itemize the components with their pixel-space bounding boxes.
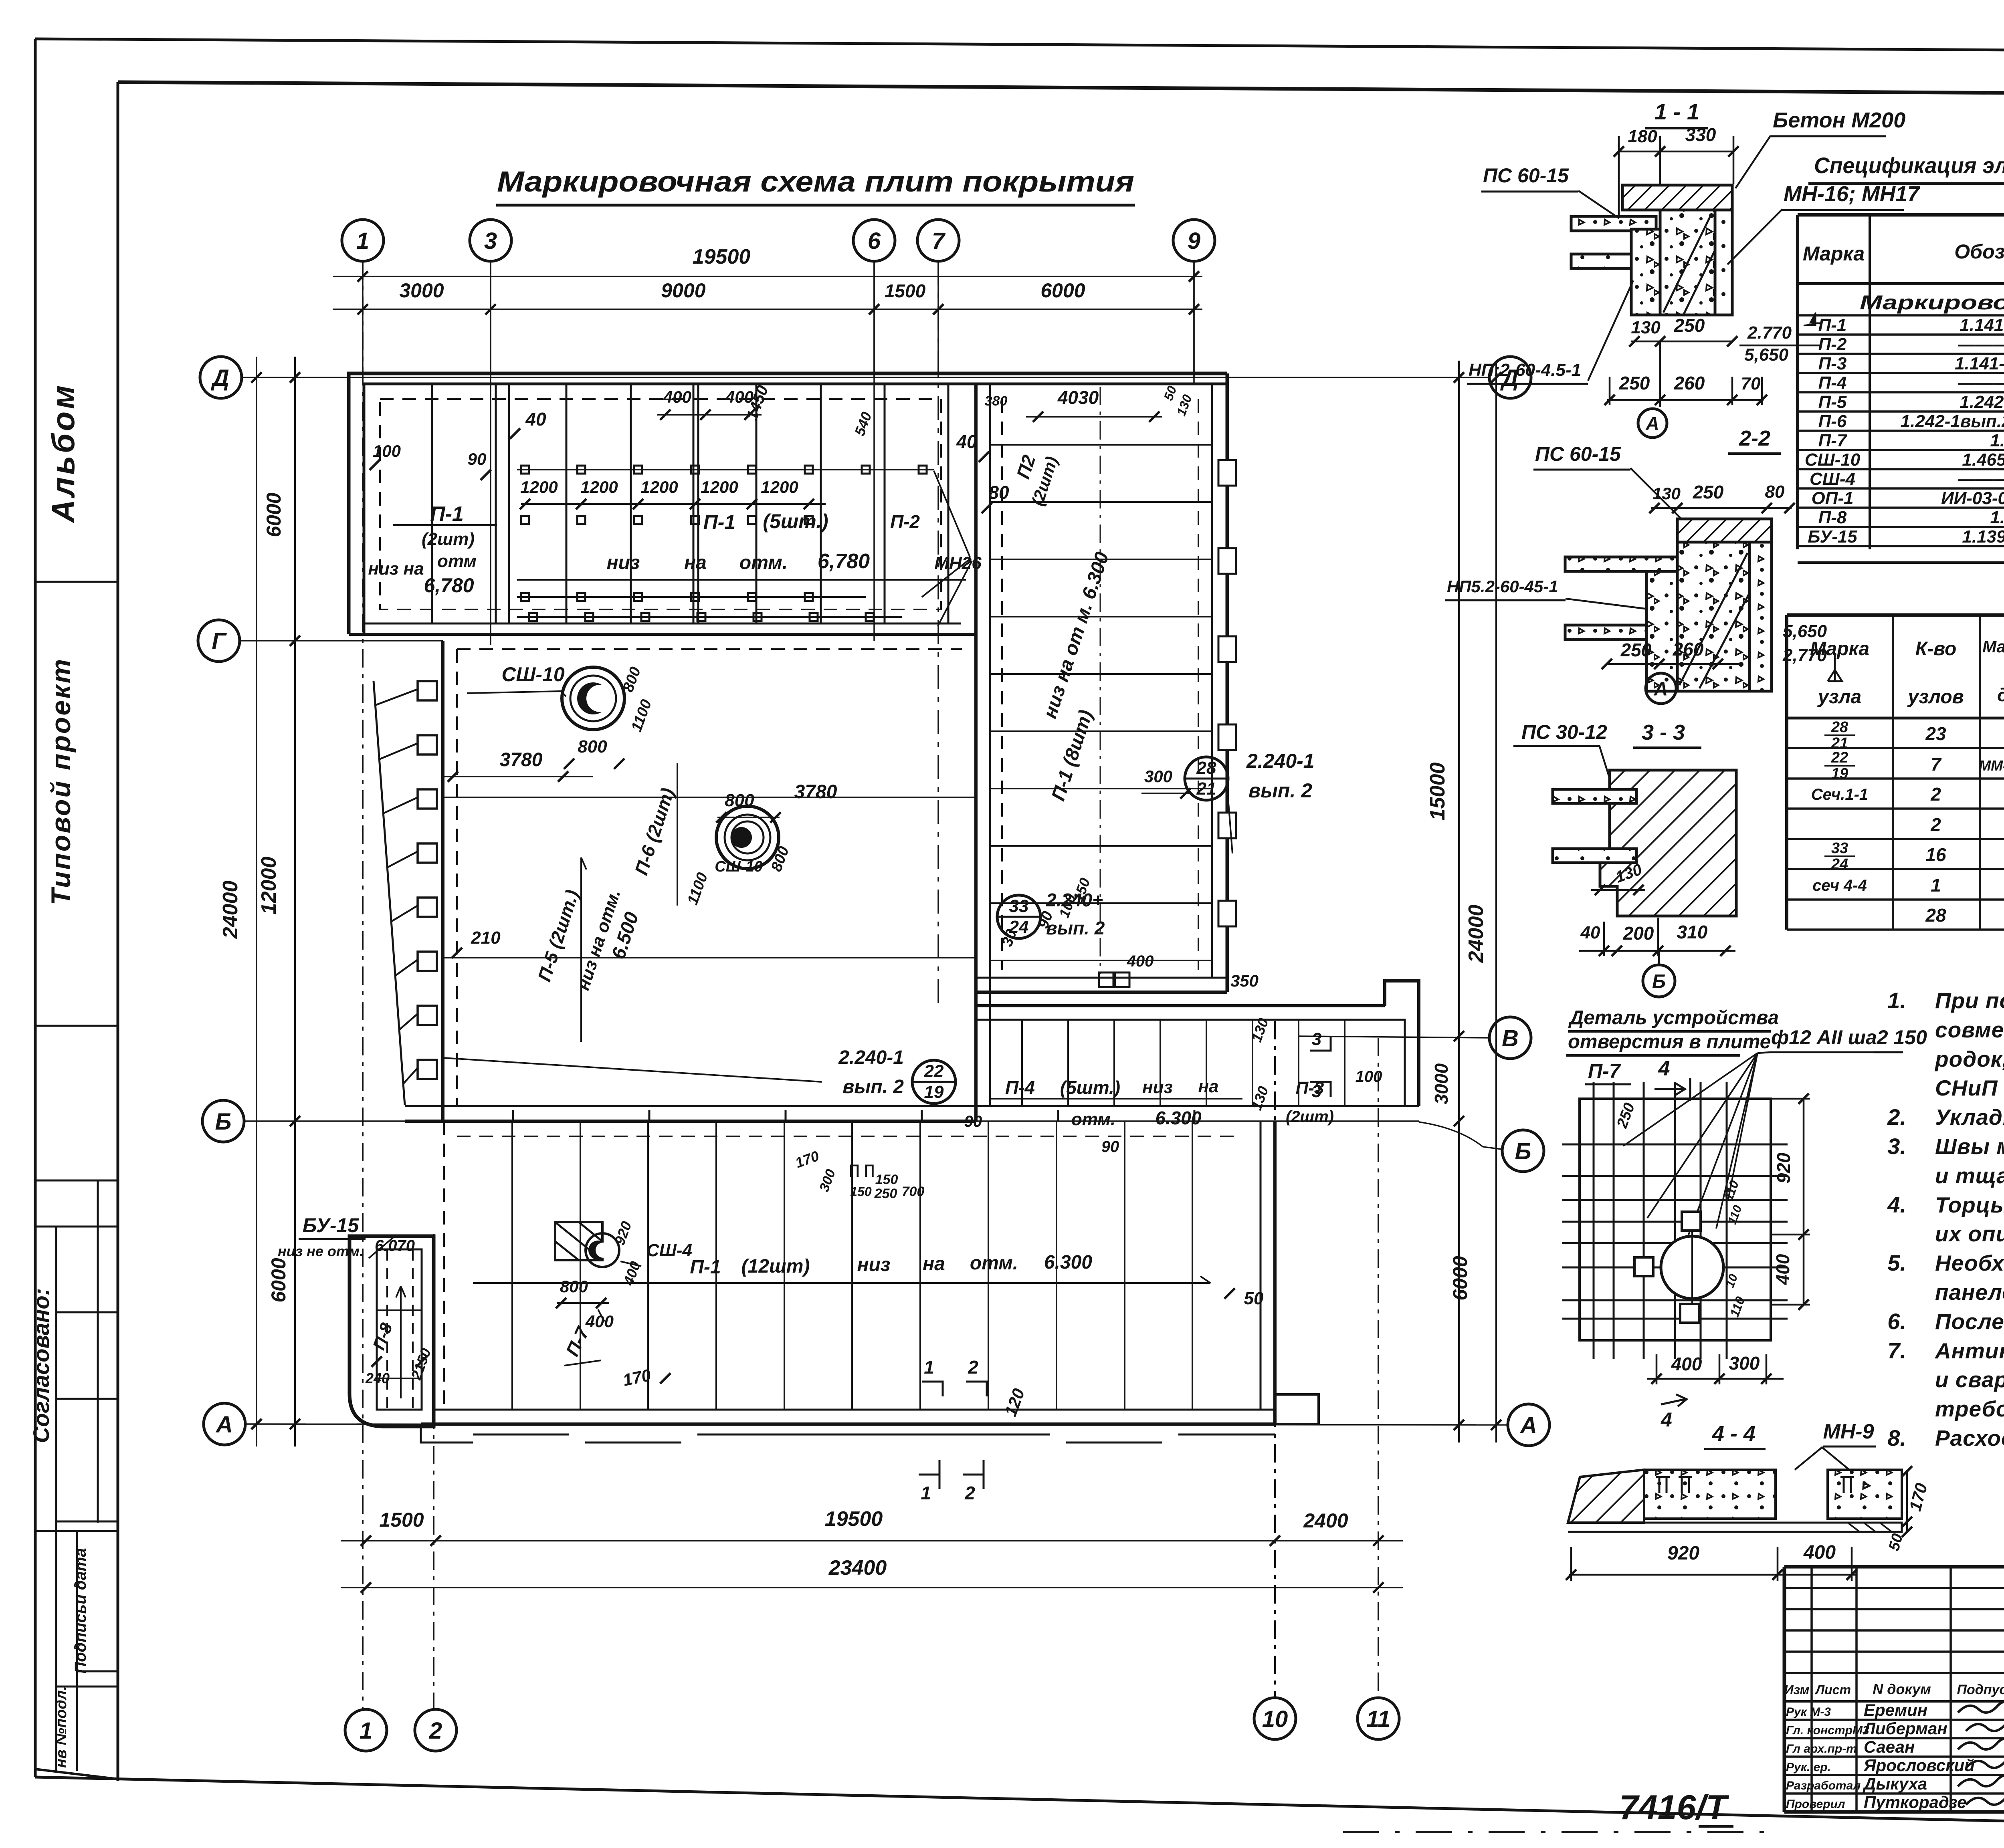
detail bottom dim 400/300 — [1647, 1378, 1784, 1380]
axis circle Д right — [1489, 357, 1531, 398]
table1 grid — [1798, 213, 2004, 217]
svg-text:Типовой проект: Типовой проект — [46, 658, 76, 905]
svg-text:1200: 1200 — [520, 478, 558, 496]
svg-text:ф12 АII ша2 150: ф12 АII ша2 150 — [1771, 1026, 1927, 1049]
section 2-2 right strip — [1749, 542, 1772, 691]
zone4 bottom wall — [434, 1409, 1275, 1411]
svg-text:700: 700 — [902, 1184, 925, 1199]
svg-text:Маркировочная схема плит: Маркировочная схема плит покрытия — [497, 166, 1134, 198]
svg-text:их опирания.: их опирания. — [1935, 1221, 2004, 1246]
svg-text:на: на — [1198, 1077, 1218, 1096]
strip inner dashed — [1001, 399, 1003, 970]
svg-text:/Т: /Т — [1695, 1788, 1729, 1827]
plan zone1 slab joints — [431, 384, 433, 623]
svg-text:МН-16; МН17: МН-16; МН17 — [1784, 182, 1921, 206]
svg-text:22: 22 — [1831, 749, 1848, 766]
svg-text:33: 33 — [1009, 896, 1029, 916]
svg-text:ММ-11(ℓ=0,45м): ММ-11(ℓ=0,45м) — [1979, 757, 2004, 774]
svg-text:6000: 6000 — [1040, 279, 1085, 302]
svg-text:Путкорадзе: Путкорадзе — [1864, 1793, 1967, 1812]
detail grid outline — [1580, 1099, 1771, 1340]
svg-text:2: 2 — [964, 1483, 975, 1503]
svg-text:Разработал: Разработал — [1786, 1779, 1861, 1792]
svg-text:Спецификация элементов к марки: Спецификация элементов к маркировочным с… — [1814, 153, 2004, 178]
axis circle 3 top — [470, 220, 511, 261]
svg-text:БУ-15: БУ-15 — [303, 1214, 359, 1237]
svg-text:24000: 24000 — [219, 881, 242, 939]
svg-text:низ: низ — [607, 552, 640, 573]
СШ-10 hole 1 — [562, 667, 624, 730]
СШ-10 hole 2 — [716, 806, 779, 869]
axis circle Д left — [200, 357, 242, 398]
svg-text:400: 400 — [663, 387, 691, 406]
svg-text:В: В — [1502, 1025, 1519, 1051]
svg-text:920: 920 — [1773, 1152, 1794, 1183]
svg-text:250: 250 — [1620, 640, 1652, 660]
axis circle А left — [204, 1403, 245, 1445]
svg-text:2.240-1: 2.240-1 — [1246, 750, 1315, 772]
top dim line 19500 — [333, 276, 1202, 277]
БУ-15 block joints — [377, 1309, 422, 1311]
sheet left border — [34, 39, 37, 1777]
svg-text:отм.: отм. — [970, 1253, 1018, 1274]
section 1-1 left slab lower — [1571, 254, 1656, 268]
svg-text:(5шт.): (5шт.) — [763, 510, 828, 533]
zoneV labels — [990, 1098, 1242, 1100]
svg-text:Д: Д — [210, 365, 229, 391]
П-6 label — [677, 763, 678, 906]
svg-text:1.243-2: 1.243-2 — [1990, 508, 2004, 527]
svg-text:260: 260 — [1674, 373, 1705, 393]
svg-text:(2шт): (2шт) — [1286, 1108, 1334, 1126]
axis stubs top — [362, 261, 364, 377]
sheet bottom border — [35, 1777, 2004, 1834]
svg-text:920: 920 — [1667, 1543, 1699, 1564]
svg-text:4 - 4: 4 - 4 — [1712, 1422, 1756, 1446]
svg-text:Б: Б — [215, 1109, 231, 1135]
svg-text:3000: 3000 — [399, 279, 444, 302]
axis circle Г left — [198, 620, 240, 662]
svg-text:МН-9: МН-9 — [1823, 1420, 1874, 1443]
svg-text:Деталь устройства: Деталь устройства — [1568, 1007, 1779, 1029]
svg-text:вып. 2: вып. 2 — [1046, 918, 1105, 938]
zone3 left pilasters — [418, 681, 437, 700]
svg-text:4030: 4030 — [1057, 387, 1099, 408]
svg-text:Гл. констрМ3: Гл. констрМ3 — [1786, 1724, 1869, 1737]
svg-text:310: 310 — [1677, 922, 1708, 942]
svg-text:250: 250 — [1619, 373, 1650, 393]
section 2-2 left slab lower — [1565, 625, 1677, 640]
svg-text:П-1: П-1 — [1818, 315, 1847, 335]
svg-text:2: 2 — [1930, 784, 1941, 805]
section 1-1 right strip — [1715, 210, 1732, 315]
callout 28/21 — [1185, 757, 1228, 800]
axis line 3 — [490, 261, 491, 645]
section 2-2 lower-left block — [1646, 571, 1677, 691]
svg-text:Согласовано:: Согласовано: — [28, 1288, 54, 1443]
axis circle А right — [1508, 1404, 1549, 1446]
detail small squares — [1682, 1212, 1701, 1231]
left strip divider — [117, 82, 119, 1781]
zone3 top dashed — [457, 648, 962, 650]
svg-text:19: 19 — [1831, 765, 1848, 782]
svg-text:отм.: отм. — [1071, 1110, 1115, 1129]
axis line Д — [242, 377, 1489, 378]
svg-text:7.: 7. — [1887, 1338, 1906, 1363]
svg-text:ПС 60-15: ПС 60-15 — [1535, 443, 1621, 465]
svg-text:100: 100 — [1356, 1068, 1382, 1085]
svg-text:После монтажа панелей монтажны: После монтажа панелей монтажные петли от… — [1935, 1309, 2004, 1334]
svg-text:130: 130 — [1652, 484, 1681, 503]
П-5 label — [580, 857, 582, 1042]
left strip bottom table — [35, 1180, 118, 1182]
svg-text:1: 1 — [924, 1357, 934, 1378]
svg-text:3: 3 — [1312, 1081, 1321, 1101]
svg-text:22: 22 — [924, 1061, 944, 1081]
svg-text:3: 3 — [484, 228, 497, 254]
detail grid rebars horizontal — [1562, 1144, 1788, 1146]
plan zone1 inner dashed rect — [380, 399, 941, 609]
svg-text:——— " ———: ——— " ——— — [1958, 335, 2004, 354]
svg-text:1: 1 — [360, 1718, 372, 1744]
svg-text:10: 10 — [1262, 1706, 1288, 1732]
axis circle 2 bottom — [415, 1709, 457, 1751]
svg-text:80: 80 — [988, 482, 1009, 503]
svg-text:7416: 7416 — [1619, 1788, 1696, 1827]
strip right wall notches — [1218, 460, 1236, 486]
svg-text:2: 2 — [1930, 814, 1941, 835]
svg-text:Антикоррозийную зашиту металли: Антикоррозийную зашиту металличеоких эле… — [1934, 1338, 2004, 1363]
svg-text:П-6: П-6 — [1818, 412, 1847, 431]
svg-text:ОП-1: ОП-1 — [1812, 488, 1854, 508]
svg-text:сеч 4-4: сеч 4-4 — [1812, 877, 1867, 894]
svg-text:на: на — [923, 1253, 945, 1275]
svg-text:ПС 30-12: ПС 30-12 — [1521, 721, 1607, 743]
svg-text:1: 1 — [356, 228, 369, 254]
svg-text:1.465-7 вып.3: 1.465-7 вып.3 — [1962, 450, 2004, 470]
zone4 slab ticks top — [512, 1110, 514, 1121]
zone1 labels П-1 5шт row — [517, 579, 966, 581]
svg-text:9: 9 — [1188, 228, 1200, 254]
zoneV slab joints — [1021, 1020, 1023, 1106]
zone4 label row — [473, 1282, 1210, 1284]
svg-text:300: 300 — [1144, 767, 1172, 786]
svg-text:∏ ∏: ∏ ∏ — [848, 1162, 875, 1177]
svg-text:2.770: 2.770 — [1747, 323, 1792, 343]
svg-text:Изм: Изм — [1784, 1683, 1810, 1697]
plan zone1 anchor squares row1 — [517, 469, 934, 470]
zone4 bottom-right step — [1275, 1394, 1319, 1424]
svg-text:2-2: 2-2 — [1739, 426, 1770, 450]
svg-text:низ на: низ на — [368, 559, 424, 579]
svg-text:400: 400 — [1671, 1354, 1702, 1374]
bottom dim line 1500/19500/2400 — [341, 1540, 1403, 1541]
title block revision rows — [1784, 1587, 2004, 1589]
svg-text:Марка: Марка — [1810, 638, 1869, 660]
svg-text:низ не отм.: низ не отм. — [278, 1243, 364, 1259]
svg-text:——— " ———: ——— " ——— — [1958, 373, 2004, 393]
svg-text:(2шт): (2шт) — [422, 529, 475, 549]
svg-text:на: на — [684, 552, 707, 573]
svg-text:N докум: N докум — [1873, 1681, 1931, 1697]
svg-text:1500: 1500 — [885, 280, 926, 301]
strip bottom wall — [976, 977, 1227, 979]
svg-text:4: 4 — [1658, 1057, 1670, 1080]
БУ-15 block outline — [349, 1236, 434, 1426]
svg-text:Марка соед.: Марка соед. — [1982, 637, 2004, 656]
svg-text:Б: Б — [1515, 1138, 1531, 1164]
svg-text:3.: 3. — [1887, 1134, 1906, 1159]
svg-text:П-1: П-1 — [430, 502, 464, 526]
section 1-1 top slab hatched — [1622, 185, 1732, 210]
svg-text:300: 300 — [1729, 1353, 1760, 1374]
svg-text:Лист: Лист — [1815, 1683, 1851, 1697]
title block outer — [1784, 1565, 2004, 1569]
axis circle В right — [1489, 1017, 1531, 1059]
svg-text:400: 400 — [1772, 1254, 1793, 1285]
section 1-1 column — [1660, 210, 1715, 315]
svg-text:150: 150 — [850, 1184, 872, 1199]
axis line 2 bottom — [433, 1234, 434, 1709]
svg-text:П-1: П-1 — [690, 1257, 721, 1278]
4-4 bottom dims — [1569, 1574, 1856, 1576]
svg-text:СНиП II-21-75: СНиП II-21-75 — [1935, 1075, 2004, 1100]
СШ-4 detail — [555, 1222, 602, 1260]
rebar leader fan — [1623, 1053, 1758, 1269]
svg-text:6,780: 6,780 — [424, 574, 474, 597]
svg-text:низ: низ — [857, 1254, 891, 1275]
svg-text:детали: детали — [1997, 684, 2004, 705]
svg-text:24: 24 — [1831, 856, 1848, 873]
БУ-15 arrow — [396, 1286, 406, 1398]
svg-text:БУ-15: БУ-15 — [1808, 527, 1857, 547]
plan zone1 outer wall — [349, 373, 1227, 634]
axis line 10 bottom — [1274, 1021, 1276, 1697]
svg-text:6.: 6. — [1887, 1309, 1906, 1334]
svg-text:2: 2 — [968, 1357, 978, 1378]
section 3-3 circle Б — [1643, 965, 1675, 997]
svg-text:(12шт): (12шт) — [741, 1256, 810, 1277]
svg-text:1: 1 — [1931, 875, 1941, 896]
zone3 bottom wall — [405, 1105, 976, 1107]
svg-text:1: 1 — [921, 1483, 931, 1503]
detail grid rebars vertical — [1593, 1082, 1595, 1359]
svg-text:3780: 3780 — [794, 781, 837, 803]
svg-text:28: 28 — [1925, 905, 1946, 926]
section 2-2 top slab hatched — [1677, 519, 1772, 542]
svg-text:А: А — [1654, 678, 1668, 700]
section 2-2 left slab upper — [1565, 557, 1677, 571]
svg-text:и тщательно заделать цементным: и тщательно заделать цементным раствором… — [1935, 1163, 2004, 1188]
svg-text:50: 50 — [1244, 1289, 1264, 1308]
svg-text:200: 200 — [1623, 923, 1654, 944]
svg-text:А: А — [1645, 413, 1659, 434]
callout 22/19 — [912, 1060, 956, 1104]
axis line Б — [244, 1120, 1419, 1122]
detail hole circle — [1661, 1236, 1723, 1299]
svg-text:СШ-10: СШ-10 — [715, 858, 763, 875]
detail right dim 920/400 — [1803, 1099, 1805, 1305]
section 3-3 left slab upper — [1553, 789, 1636, 803]
axis circle 7 top — [917, 220, 959, 261]
zoneV top wall — [976, 1004, 1385, 1007]
svg-text:3780: 3780 — [500, 749, 543, 771]
svg-text:Саеан: Саеан — [1864, 1737, 1915, 1756]
svg-text:Бетон М200: Бетон М200 — [1773, 108, 1905, 132]
left dim line 24000 — [256, 357, 257, 1447]
axis circle 1 bottom — [345, 1709, 387, 1751]
svg-text:130: 130 — [1631, 318, 1661, 337]
svg-text:1200: 1200 — [701, 478, 738, 496]
zoneV left wall — [974, 992, 978, 1121]
svg-text:380: 380 — [985, 393, 1008, 409]
svg-text:6000: 6000 — [263, 492, 285, 537]
svg-text:800: 800 — [578, 737, 607, 757]
top dim line 3000/9000/1500/6000 — [333, 309, 1202, 310]
svg-text:П-5: П-5 — [1818, 392, 1847, 412]
axis line 1 — [362, 261, 364, 1709]
svg-text:6,780: 6,780 — [818, 550, 870, 573]
svg-text:Торцы панелей заделать бетоном: Торцы панелей заделать бетоном марки „15… — [1935, 1192, 2004, 1217]
svg-text:180: 180 — [1628, 127, 1657, 146]
svg-text:Рук. ер.: Рук. ер. — [1786, 1761, 1831, 1774]
plan zone1 inner wall line — [364, 384, 1227, 634]
svg-text:3000: 3000 — [1431, 1063, 1452, 1104]
svg-text:Проверил: Проверил — [1786, 1798, 1845, 1811]
svg-text:800: 800 — [725, 791, 754, 810]
axis circle 11 bottom — [1358, 1698, 1399, 1739]
svg-text:1200: 1200 — [580, 478, 618, 496]
svg-text:7: 7 — [1931, 754, 1942, 775]
strip slab joints — [990, 444, 1212, 446]
title block header row lines — [1784, 1700, 2004, 1703]
svg-text:отм: отм — [437, 551, 477, 571]
svg-text:низ: низ — [1142, 1077, 1173, 1097]
svg-text:70: 70 — [1741, 374, 1761, 393]
sheet outer border top — [35, 39, 2004, 53]
svg-text:3 - 3: 3 - 3 — [1642, 720, 1685, 744]
right dim line 15000/3000/6000 — [1458, 361, 1460, 1442]
svg-text:Обозначение: Обозначение — [1954, 240, 2004, 263]
svg-text:Ярословский: Ярословский — [1863, 1756, 1975, 1775]
axis circle Б left — [202, 1100, 244, 1142]
svg-text:родок, идуших вдоль панелей в: родок, идуших вдоль панелей в соответств… — [1934, 1047, 2004, 1071]
svg-text:2400: 2400 — [1303, 1509, 1348, 1532]
svg-text:40: 40 — [956, 431, 977, 452]
svg-text:11: 11 — [1366, 1706, 1390, 1732]
zone4 left dashed edge — [443, 1121, 445, 1410]
svg-text:П-3: П-3 — [1818, 354, 1847, 373]
svg-text:П-7: П-7 — [1818, 431, 1848, 450]
svg-text:СШ-10: СШ-10 — [501, 663, 565, 686]
svg-text:15000: 15000 — [1426, 763, 1449, 821]
zone3 left sawtooth wall — [374, 681, 405, 1105]
svg-text:Гл арх.пр-т: Гл арх.пр-т — [1786, 1742, 1857, 1755]
table2 grid — [1787, 613, 2004, 617]
svg-text:4: 4 — [1661, 1408, 1672, 1431]
svg-text:Рук М-3: Рук М-3 — [1786, 1705, 1831, 1719]
plan zone1 bottom wall — [349, 633, 976, 636]
svg-text:5.: 5. — [1887, 1250, 1906, 1275]
svg-text:Г: Г — [212, 628, 227, 654]
svg-text:НП5.2-60-45-1: НП5.2-60-45-1 — [1447, 577, 1558, 596]
left strip divider lines — [35, 581, 118, 583]
svg-text:П-4: П-4 — [1818, 373, 1847, 393]
svg-text:2: 2 — [429, 1718, 442, 1744]
svg-text:6.300: 6.300 — [1044, 1252, 1092, 1273]
zone4 top dashed — [457, 1136, 1242, 1137]
svg-text:П-7: П-7 — [1588, 1060, 1621, 1082]
axis line 6 — [873, 261, 875, 641]
svg-text:Расход арматуры ф12 АII - 10.7: Расход арматуры ф12 АII - 10.7 ке. — [1935, 1426, 2004, 1451]
svg-text:6.070: 6.070 — [375, 1237, 415, 1255]
svg-text:12000: 12000 — [257, 857, 281, 915]
svg-text:нв №подл.: нв №подл. — [53, 1686, 70, 1768]
section 1-1 left slab upper — [1571, 216, 1656, 231]
section 3-3 left slab lower — [1553, 849, 1636, 863]
axis line 9 — [1193, 261, 1195, 384]
svg-text:33: 33 — [1831, 840, 1848, 857]
axis line Г — [240, 640, 443, 642]
svg-text:400: 400 — [585, 1312, 614, 1331]
axis circle Б right — [1502, 1130, 1544, 1172]
zone3 slab joints — [443, 797, 976, 798]
plan zone1 anchor squares row1b — [521, 516, 529, 524]
svg-text:ИИ-03-02 альб.108: ИИ-03-02 альб.108 — [1941, 488, 2004, 508]
svg-text:П-8: П-8 — [1818, 508, 1847, 527]
svg-text:400: 400 — [1127, 952, 1154, 970]
svg-text:узла: узла — [1817, 686, 1861, 708]
zone4 bottom outer foundation line — [421, 1424, 1275, 1442]
svg-text:6000: 6000 — [267, 1258, 290, 1302]
strip center axis dashed — [1100, 387, 1101, 974]
svg-text:250: 250 — [1674, 315, 1705, 336]
svg-text:19: 19 — [924, 1082, 944, 1102]
svg-text:Маркировочная схема плит: Маркировочная схема плит покрытия — [1860, 291, 2004, 314]
zoneV corner step right — [1385, 981, 1419, 1106]
4-4 right dims 170/50 — [1906, 1470, 1908, 1532]
svg-text:Подписьи дата: Подписьи дата — [72, 1548, 89, 1673]
svg-text:7: 7 — [932, 228, 946, 254]
svg-text:80: 80 — [1765, 482, 1785, 502]
svg-text:вып. 2: вып. 2 — [1248, 779, 1312, 802]
axis circle 1 top — [342, 220, 384, 261]
svg-text:узлов: узлов — [1907, 686, 1964, 708]
left dim line 6000/12000/6000 — [294, 357, 296, 1447]
svg-text:При подборе панелей по несущей: При подборе панелей по несущей способнос… — [1935, 988, 2004, 1013]
svg-text:1.242-1 вып. 2: 1.242-1 вып. 2 — [1960, 392, 2004, 412]
axis line Б right bend — [1419, 1122, 1501, 1149]
svg-text:23: 23 — [1925, 723, 1946, 744]
svg-text:Альбом: Альбом — [45, 383, 81, 524]
zone4 slab joints — [511, 1121, 513, 1410]
svg-text:2.: 2. — [1887, 1104, 1906, 1130]
svg-text:100: 100 — [373, 442, 401, 460]
svg-text:2.240-1: 2.240-1 — [838, 1047, 904, 1068]
section 1-1 lower-left block — [1631, 229, 1660, 315]
svg-text:1.: 1. — [1887, 988, 1906, 1013]
svg-text:240: 240 — [365, 1370, 390, 1386]
svg-text:28: 28 — [1831, 719, 1848, 736]
svg-text:21: 21 — [1196, 779, 1216, 799]
svg-text:НП:2-60-4.5-1: НП:2-60-4.5-1 — [1469, 360, 1581, 380]
bottom dim line 23400 — [341, 1587, 1403, 1588]
svg-text:Укладку панелей производить на: Укладку панелей производить на растворе … — [1935, 1105, 2004, 1130]
svg-text:90: 90 — [468, 450, 487, 468]
svg-text:1200: 1200 — [761, 478, 798, 496]
svg-text:4.: 4. — [1887, 1192, 1906, 1217]
svg-text:40: 40 — [525, 409, 546, 430]
